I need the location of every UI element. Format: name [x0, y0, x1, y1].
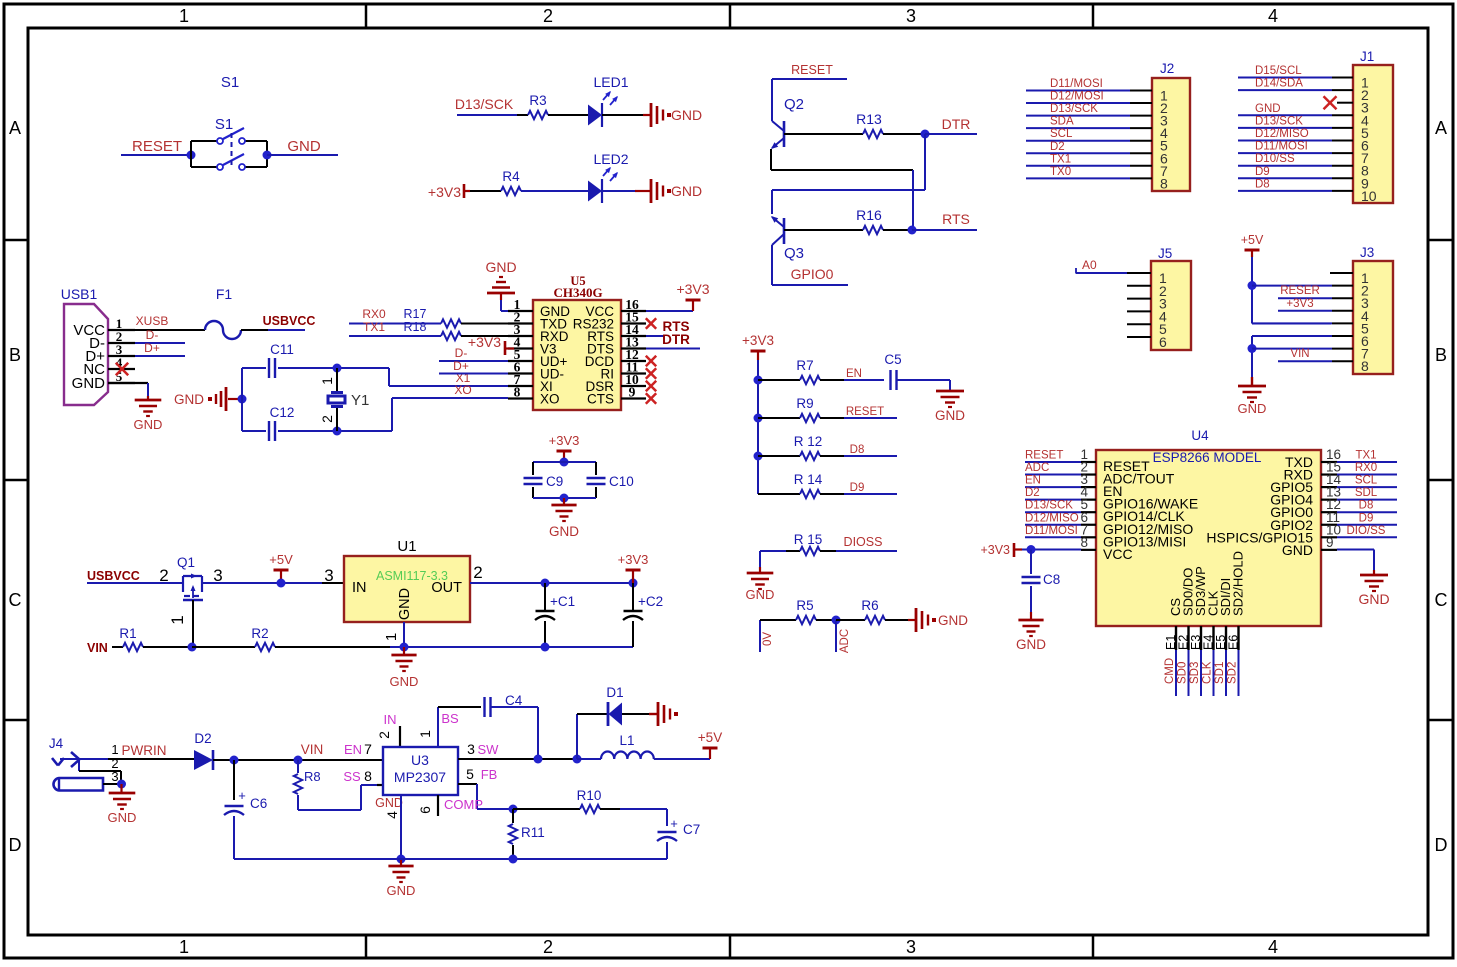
- svg-text:R17: R17: [404, 307, 427, 321]
- J2 pin number 2: [1160, 100, 1168, 116]
- no-connect X U5 pin9: [646, 393, 656, 403]
- USB1 pin number 5: [116, 369, 123, 384]
- U4 pin label E1: [1164, 635, 1178, 650]
- junction C1 top: [541, 579, 550, 588]
- node D13/SCK label (J1 pin 5): [1255, 115, 1303, 127]
- Q1 pin number 1 label: [168, 615, 187, 624]
- junction S1 left: [187, 151, 196, 160]
- U4 bottom pin name SD0/DO: [1181, 568, 1196, 616]
- svg-text:D11/MOSI: D11/MOSI: [1255, 141, 1308, 153]
- svg-text:8: 8: [1080, 535, 1088, 550]
- wire vin rail right: [390, 646, 633, 648]
- ground R15: [746, 551, 775, 602]
- svg-text:IN: IN: [352, 580, 367, 596]
- J2 pin number 6: [1160, 150, 1168, 166]
- svg-text:Q2: Q2: [784, 96, 804, 113]
- svg-text:J2: J2: [1160, 61, 1174, 76]
- U5 pin number 5: [514, 347, 521, 362]
- svg-text:D-: D-: [146, 328, 159, 342]
- U4 bottom pin E5 stub: [1225, 626, 1227, 650]
- ground crystal: [174, 387, 242, 411]
- svg-text:GND: GND: [287, 138, 321, 155]
- wire XI: [389, 368, 508, 386]
- diode D2: [194, 731, 213, 770]
- wire J1 pin 1: [1238, 77, 1353, 79]
- U5 pin number 7: [514, 372, 521, 387]
- svg-text:Q3: Q3: [784, 245, 804, 262]
- U4 pin name GND: [1282, 542, 1313, 558]
- J4 pin number 2: [111, 756, 118, 771]
- node RX0 label (U4 pin 15): [1355, 462, 1377, 474]
- svg-text:S1: S1: [221, 74, 239, 91]
- wire COMP pin: [437, 795, 439, 816]
- svg-text:EN: EN: [1025, 475, 1041, 487]
- wire A0 to J5 pin 1: [1076, 268, 1151, 274]
- U4 bottom pin name SDI/DI: [1218, 578, 1233, 616]
- svg-text:1: 1: [417, 730, 433, 738]
- U4 pin number 9: [1326, 535, 1334, 550]
- svg-text:RESET: RESET: [846, 406, 884, 418]
- switch S1 label: [215, 116, 233, 133]
- wire J3 pin 2: [1252, 285, 1353, 287]
- wire U1 out: [470, 582, 633, 584]
- node SD2 label (U4 pin E6): [1227, 662, 1239, 684]
- ic U1 reference: [397, 538, 416, 555]
- junction C9 bottom: [560, 494, 569, 503]
- svg-text:+5V: +5V: [698, 730, 722, 745]
- svg-text:D13/SCK: D13/SCK: [1050, 103, 1098, 115]
- svg-text:GND: GND: [671, 107, 702, 123]
- svg-text:TX1: TX1: [1050, 153, 1071, 165]
- U4 bottom pin E3 stub: [1200, 626, 1202, 650]
- U1 pin name IN: [352, 580, 367, 596]
- wire D+: [135, 355, 185, 357]
- wire J2 pin 7: [1026, 165, 1152, 167]
- no-connect X mark J1 pin 3: [1324, 96, 1337, 109]
- ground C9: [549, 498, 579, 539]
- node D11/MOSI label (U4 pin 7): [1025, 525, 1078, 537]
- junction R11 bottom: [509, 855, 518, 864]
- node EN label U3: [344, 742, 362, 757]
- U4 pin name HSPICS/GPIO15: [1206, 529, 1313, 545]
- wire J1 pin 4: [1238, 114, 1353, 116]
- svg-text:USBVCC: USBVCC: [263, 314, 316, 328]
- U4 left pin 3 stub: [1081, 486, 1096, 488]
- U5 left pin 7 stub: [508, 385, 533, 387]
- svg-text:ADC: ADC: [839, 629, 851, 653]
- svg-text:1: 1: [168, 615, 187, 624]
- svg-text:SW: SW: [478, 742, 500, 757]
- no-connect X mark USB1 pin 4: [116, 363, 128, 375]
- svg-text:D9: D9: [1359, 512, 1374, 524]
- J3 pin number 6: [1361, 333, 1369, 349]
- wire Q2 emitter: [771, 149, 913, 170]
- svg-text:DIOSS: DIOSS: [844, 535, 883, 549]
- svg-text:GND: GND: [1238, 401, 1267, 416]
- wire Q3 collector to GPIO0: [772, 245, 848, 285]
- svg-text:R4: R4: [502, 169, 520, 184]
- node GND label U3: [375, 796, 403, 810]
- svg-text:9: 9: [1326, 535, 1334, 550]
- U5 pin number 2: [514, 310, 521, 325]
- svg-text:6: 6: [1159, 334, 1167, 350]
- ic U3 reference: [411, 752, 429, 768]
- wire J1 pin 7: [1238, 152, 1353, 154]
- svg-text:8: 8: [514, 385, 521, 400]
- svg-text:D9: D9: [850, 482, 865, 494]
- svg-text:OUT: OUT: [431, 580, 462, 596]
- svg-text:2: 2: [543, 937, 553, 957]
- junction J3 pin2: [1248, 281, 1257, 290]
- svg-text:1: 1: [179, 937, 189, 957]
- svg-text:F1: F1: [216, 286, 233, 302]
- node XO label: [454, 383, 471, 397]
- svg-text:R 12: R 12: [794, 434, 823, 449]
- U5 pin name V3: [540, 342, 557, 357]
- wire U4 left pin 1: [1025, 461, 1081, 463]
- svg-text:2: 2: [543, 6, 553, 26]
- wire RESET net ladder: [844, 417, 897, 419]
- resistor R8: [294, 760, 321, 810]
- svg-text:GND: GND: [72, 375, 106, 392]
- svg-text:+C2: +C2: [638, 594, 663, 609]
- J1 pin number 3: [1361, 100, 1369, 116]
- capacitor C5: [884, 352, 901, 390]
- svg-text:+5V: +5V: [269, 552, 293, 567]
- ic U5 reference: [570, 274, 585, 288]
- svg-text:D2: D2: [194, 731, 211, 746]
- svg-text:VIN: VIN: [87, 641, 108, 655]
- wire +5V vertical upper: [1251, 257, 1253, 324]
- U5 right pin 9 stub: [621, 397, 646, 399]
- node TX1 label: [363, 320, 385, 334]
- J4 pin number 1: [111, 742, 118, 757]
- wire U5 VCC to +3V3: [646, 310, 693, 312]
- USB1 pin name D-: [89, 335, 105, 352]
- wire D1 branch: [577, 714, 609, 759]
- svg-text:+3V3: +3V3: [1286, 298, 1313, 310]
- svg-text:S1: S1: [215, 116, 233, 133]
- svg-text:RESER: RESER: [1280, 285, 1320, 297]
- svg-text:C9: C9: [546, 474, 563, 489]
- svg-text:TX1: TX1: [1355, 450, 1376, 462]
- U4 pin name TXD: [1285, 454, 1313, 470]
- svg-text:A: A: [1435, 118, 1447, 138]
- wire J1 pin 9: [1238, 177, 1353, 179]
- wire J3 pin5 elbow: [1252, 323, 1331, 325]
- wire XO: [392, 398, 508, 431]
- U5 right pin 14 stub: [621, 335, 646, 337]
- U4 pin name GPIO16/WAKE: [1103, 496, 1198, 512]
- svg-text:SDA: SDA: [1050, 116, 1074, 128]
- ground C8: [1016, 612, 1046, 652]
- node EN label: [846, 368, 862, 380]
- svg-text:2: 2: [319, 415, 335, 423]
- junction C1 bottom: [541, 643, 550, 652]
- wire UD+: [439, 360, 508, 362]
- J4 pin number 3: [111, 769, 118, 784]
- no-connect X U5 pin11: [646, 368, 656, 378]
- ic U3 body: [383, 747, 458, 795]
- wire J4 pin1: [60, 758, 194, 760]
- junction J4 gnd: [117, 780, 126, 789]
- svg-text:VIN: VIN: [1290, 348, 1309, 360]
- U5 pin number 9: [629, 385, 636, 400]
- U1 pin number 3 label: [213, 566, 222, 585]
- wire J2 pin 2: [1026, 102, 1152, 104]
- svg-text:8: 8: [1160, 175, 1168, 191]
- node RX0 label: [362, 307, 386, 321]
- svg-text:RTS: RTS: [942, 211, 970, 227]
- capacitor C6: [224, 788, 267, 859]
- U5 pin name UD+: [540, 354, 567, 369]
- U5 pin name DCD: [585, 354, 614, 369]
- svg-text:CTS: CTS: [587, 392, 614, 407]
- power +3V3 tap U5 VCC: [676, 281, 709, 311]
- wire J1 pin 2: [1238, 89, 1353, 91]
- U5 pin name GND: [540, 304, 570, 319]
- U4 pin number 1: [1080, 447, 1088, 462]
- svg-text:3: 3: [324, 566, 333, 585]
- power +3V3 tap LED2: [428, 184, 470, 200]
- node SCL label (J2 pin 5): [1050, 128, 1073, 140]
- svg-text:GND: GND: [375, 796, 403, 810]
- node FB label U3: [481, 767, 498, 782]
- U5 pin name VCC: [585, 304, 614, 319]
- J1 pin number 5: [1361, 125, 1369, 141]
- svg-text:EN: EN: [846, 368, 862, 380]
- junction C8: [1027, 545, 1036, 554]
- svg-text:FB: FB: [481, 767, 498, 782]
- wire C7 branch: [666, 809, 668, 826]
- svg-text:D2: D2: [1025, 487, 1040, 499]
- U5 pin name DTS: [587, 342, 614, 357]
- wire crystal bottom rail: [242, 430, 392, 432]
- svg-text:R6: R6: [861, 598, 878, 613]
- junction VIN bottom: [294, 756, 303, 765]
- no-connect X U5 pin10: [646, 381, 656, 391]
- power +5V tap out: [698, 730, 722, 759]
- wire U3 gnd pin: [400, 795, 402, 859]
- node D12/MISO label (J1 pin 6): [1255, 128, 1309, 140]
- transistor Q2: [769, 96, 804, 151]
- USB1 pin 3 stub: [108, 355, 135, 357]
- node D11/MOSI label (J1 pin 7): [1255, 141, 1308, 153]
- U4 pin name GPIO2: [1270, 517, 1313, 533]
- svg-text:EN: EN: [344, 742, 362, 757]
- resistor R16: [847, 207, 912, 234]
- node EN label (U4 pin 3): [1025, 475, 1041, 487]
- svg-text:+: +: [670, 816, 678, 831]
- wire Q3 base to R16: [784, 229, 847, 231]
- node D+ label U5: [453, 359, 469, 373]
- resistor R10: [513, 788, 667, 813]
- wire J2 pin 5: [1026, 140, 1152, 142]
- junction RTS: [908, 226, 917, 235]
- svg-text:4: 4: [1268, 6, 1278, 26]
- svg-text:RESET: RESET: [1025, 450, 1063, 462]
- wire ladder vertical: [757, 360, 759, 494]
- wire SS stub: [377, 784, 383, 786]
- wire bottom rail: [234, 858, 667, 860]
- wire crossover upper: [912, 170, 914, 230]
- U5 pin number 6: [514, 360, 521, 375]
- diode D1: [606, 685, 623, 726]
- J1 pin number 2: [1361, 87, 1369, 103]
- svg-text:D+: D+: [144, 341, 160, 355]
- U4 pin name GPIO4: [1270, 492, 1313, 508]
- svg-text:A: A: [9, 118, 21, 138]
- U4 left pin 6 stub: [1081, 524, 1096, 526]
- svg-text:3: 3: [906, 6, 916, 26]
- svg-text:D10/SS: D10/SS: [1255, 153, 1295, 165]
- node DTR label: [942, 116, 971, 132]
- svg-text:COMP: COMP: [444, 797, 483, 812]
- wire J5 pin 5: [1127, 323, 1151, 325]
- J3 pin number 1: [1361, 270, 1369, 286]
- U4 bottom pin name SD2/HOLD: [1231, 551, 1246, 616]
- svg-text:+3V3: +3V3: [618, 552, 649, 567]
- wire EN to C5: [844, 379, 884, 381]
- node VIN label: [87, 641, 108, 655]
- wire D-: [135, 342, 185, 344]
- svg-text:GND: GND: [387, 883, 416, 898]
- U5 pin number 12: [625, 347, 639, 362]
- connector J4 sleeve: [53, 778, 121, 791]
- capacitor C11: [269, 342, 294, 378]
- svg-text:VIN: VIN: [301, 742, 324, 757]
- wire VIN to R1: [112, 646, 123, 648]
- svg-text:R11: R11: [521, 825, 545, 840]
- resistor R3: [528, 93, 588, 119]
- svg-text:GND: GND: [485, 259, 516, 275]
- USB1 pin name VCC: [73, 322, 105, 339]
- power +3V3 tap C9: [549, 433, 580, 458]
- U4 pin number 3: [1080, 472, 1088, 487]
- node D8 label (U4 pin 12): [1359, 500, 1374, 512]
- svg-text:R10: R10: [577, 788, 602, 803]
- wire 0V: [760, 620, 796, 652]
- wire Q2 base to R13: [784, 133, 847, 135]
- wire FB pin: [458, 784, 513, 809]
- U5 pin number 1: [514, 297, 521, 312]
- ic U4 body: [1096, 450, 1321, 626]
- U4 left pin 8 stub: [1081, 549, 1096, 551]
- U3 pin number 3: [467, 741, 475, 757]
- node GPIO0 label: [791, 266, 834, 282]
- U4 bottom pin name CS: [1168, 598, 1183, 616]
- wire U3 IN pin: [399, 726, 401, 747]
- wire J4 pin2-3 join: [120, 771, 122, 784]
- svg-text:LED2: LED2: [593, 151, 628, 167]
- svg-text:R9: R9: [796, 396, 813, 411]
- LED LED2: [588, 151, 629, 203]
- J1 pin number 9: [1361, 175, 1369, 191]
- svg-text:D15/SCL: D15/SCL: [1255, 65, 1302, 77]
- USB1 pin 1 stub: [108, 329, 135, 331]
- J1 pin number 1: [1361, 75, 1369, 91]
- U4 pin name ADC/TOUT: [1103, 471, 1175, 487]
- wire J2 pin 1: [1026, 90, 1152, 92]
- svg-text:D9: D9: [1255, 166, 1270, 178]
- svg-text:2: 2: [473, 563, 482, 582]
- junction J3 pin7: [1248, 344, 1257, 353]
- wire R6 to gnd: [908, 619, 915, 621]
- USB1 pin number 4: [116, 355, 123, 370]
- svg-text:SD1: SD1: [1214, 662, 1226, 684]
- node DIO/SS label (U4 pin 10): [1347, 525, 1386, 537]
- node D9 label (U4 pin 11): [1359, 512, 1374, 524]
- wire J3 pin 3: [1278, 297, 1353, 299]
- resistor R12: [758, 434, 844, 460]
- svg-text:ADC: ADC: [1025, 462, 1049, 474]
- U5 pin name TXD: [540, 317, 567, 332]
- U3 pin number 1: [417, 730, 433, 738]
- U5 left pin 5 stub: [508, 360, 533, 362]
- wire DIOSS net: [836, 550, 897, 552]
- node D- label: [146, 328, 159, 342]
- svg-text:SD3: SD3: [1189, 662, 1201, 684]
- svg-text:R 14: R 14: [794, 472, 823, 487]
- node RTS label: [942, 211, 970, 227]
- svg-text:Y1: Y1: [351, 392, 369, 409]
- resistor R4: [498, 169, 588, 195]
- power +3V3 tap ladder: [742, 333, 774, 360]
- wire J1 pin 5: [1238, 127, 1353, 129]
- U4 pin label E6: [1227, 635, 1241, 650]
- wire Q1 to U1: [202, 582, 344, 584]
- power +3V3 tap U5 V3: [468, 334, 514, 355]
- ground LED2: [651, 179, 702, 203]
- svg-text:+3V3: +3V3: [742, 333, 774, 348]
- wire J3 pin 6: [1252, 335, 1353, 337]
- svg-text:1: 1: [111, 742, 118, 757]
- node D9 label (J1 pin 9): [1255, 166, 1270, 178]
- node IN label U3: [384, 712, 397, 727]
- resistor R6: [836, 598, 908, 624]
- J1 pin number 8: [1361, 163, 1369, 179]
- svg-text:XO: XO: [540, 392, 560, 407]
- svg-text:CH340G: CH340G: [553, 285, 602, 300]
- wire C5 to gnd: [897, 380, 950, 391]
- connector J1 body: [1353, 65, 1393, 203]
- U4 pin number 4: [1080, 485, 1088, 500]
- svg-text:6: 6: [417, 806, 433, 814]
- svg-text:BS: BS: [441, 711, 459, 726]
- U4 right pin 14 stub: [1321, 486, 1337, 488]
- svg-text:+5V: +5V: [1241, 233, 1264, 247]
- U5 pin name DSR: [585, 379, 614, 394]
- connector J5 body: [1151, 261, 1191, 350]
- svg-text:GND: GND: [134, 417, 163, 432]
- junction SW1: [534, 755, 543, 764]
- node GND label: [287, 138, 321, 155]
- svg-text:4: 4: [384, 811, 400, 819]
- svg-text:GND: GND: [174, 392, 204, 407]
- node D11/MOSI label (J2 pin 1): [1050, 78, 1103, 90]
- U5 left pin 1 stub: [508, 310, 533, 312]
- U3 pin number 7: [364, 741, 372, 757]
- wire RTS: [912, 229, 977, 231]
- node TX1 label (U4 pin 16): [1355, 450, 1376, 462]
- wire J2 pin 3: [1026, 115, 1152, 117]
- U4 pin name GPIO12/MISO: [1103, 521, 1193, 537]
- svg-text:C: C: [1435, 590, 1448, 610]
- svg-text:GND: GND: [1358, 591, 1389, 607]
- connector J3 body: [1353, 261, 1393, 374]
- node D9 label ladder: [850, 482, 865, 494]
- node COMP label U3: [444, 797, 483, 812]
